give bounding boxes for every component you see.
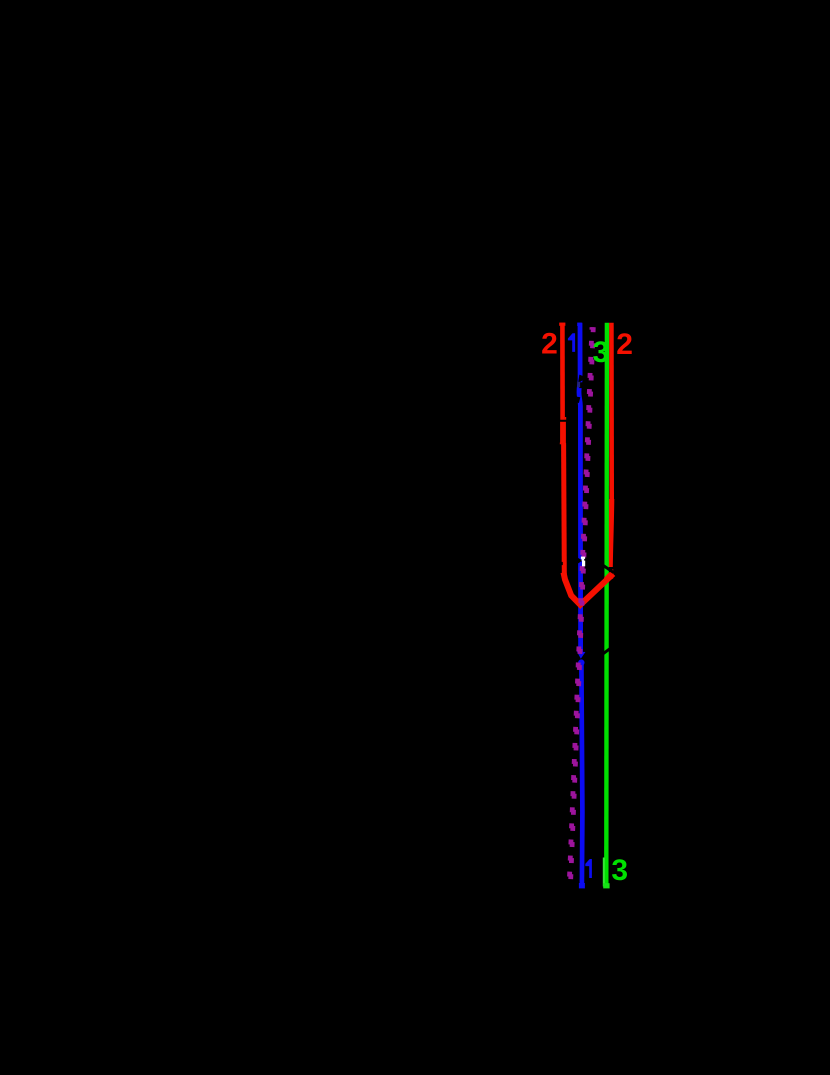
track 2 red corner filler right of green [604, 569, 613, 582]
track 3 green bottom double-line sliver [603, 858, 605, 887]
magenta dashed line B [569, 327, 592, 879]
white annotation mark middle [582, 559, 585, 561]
track 2 red line right vertical [609, 323, 614, 500]
svg-text:2: 2 [616, 328, 633, 361]
track 1 blue line cap [577, 323, 582, 326]
track 2 red line left vertical lower segment [561, 443, 567, 574]
track 1 blue arrowhead [577, 651, 586, 658]
track 2 red line left vertical mid segment [560, 422, 566, 443]
black diagonal annotation crossing green lower [602, 647, 611, 654]
svg-text:3: 3 [611, 854, 628, 887]
track 1 blue line upper with S-wiggle [579, 323, 581, 652]
black arrow annotation lower-left wedge [577, 397, 581, 403]
track 3 green bottom flare [603, 883, 609, 888]
black arrow annotation body over blue line [579, 382, 584, 388]
track 2 red V chevron [564, 573, 614, 605]
black arrow annotation over blue line upper-right wedge [578, 375, 587, 384]
magenta dashed line A [571, 327, 594, 879]
white annotation mark upper [581, 557, 585, 559]
track 2 red step block left of line [560, 443, 561, 445]
track 2 red line left cap [559, 323, 565, 326]
black diagonal annotation crossing green and red [603, 565, 614, 573]
track 1 blue line lower [581, 664, 582, 885]
label 1 blue bottom [585, 859, 592, 878]
track 3 green line [604, 323, 609, 886]
track 2 red bump right of line above gap [565, 417, 566, 420]
track 2 red line left vertical upper segment [560, 323, 565, 420]
label 1 blue top [568, 333, 575, 352]
track 2 red line right vertical lower wider segment [610, 499, 612, 567]
black notch on blue at white mark [577, 557, 583, 564]
black dent on red near bend [561, 562, 563, 565]
white annotation mark lower [582, 561, 585, 567]
track 1 blue bottom flare [579, 883, 585, 888]
svg-text:3: 3 [592, 336, 609, 369]
track 1 blue start dot [578, 659, 584, 665]
svg-text:2: 2 [541, 328, 558, 361]
dim blue sliver under arrow body [577, 382, 580, 388]
